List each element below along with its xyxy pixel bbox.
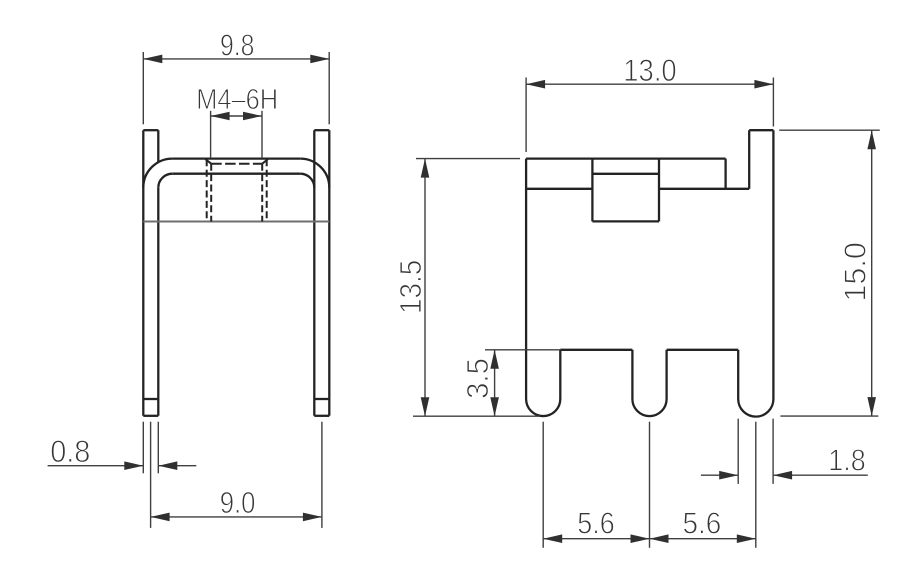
dim 5.6 dimension line (543, 538, 756, 540)
arrowhead 5.6 second right (737, 534, 756, 543)
dim 0.8 leader line right (158, 465, 196, 467)
right bend inner arc (300, 174, 314, 188)
svg-text:9.0: 9.0 (220, 485, 256, 520)
arrowhead 9.0 right (303, 513, 322, 522)
dim 9.8 dimension line (143, 58, 329, 60)
ledge line right of block to tab (659, 188, 749, 190)
prong 1 right edge (559, 350, 561, 399)
svg-text:9.8: 9.8 (220, 27, 255, 62)
thread bottom of chamfer line (211, 163, 262, 165)
arrowhead 0.8 right (outside, points left) (158, 461, 177, 470)
body top edge (526, 157, 726, 159)
svg-text:M4–6H: M4–6H (196, 84, 278, 116)
dim M4 extension line right (261, 111, 263, 159)
body right edge / prong 3 right edge (772, 130, 774, 399)
right leg inner edge (313, 130, 315, 416)
center block inner line (592, 173, 659, 175)
prong 2 left edge (631, 350, 633, 399)
dim 3.5 extension line top (485, 349, 560, 351)
slot 1 top edge (560, 349, 632, 351)
arrowhead 15.0 bottom (867, 397, 876, 416)
prong 3 rounded tip (738, 399, 773, 417)
cross line (block bottom edge seen from side) (143, 221, 329, 223)
arrowhead 1.8 left (outside, points right) (719, 471, 738, 480)
svg-text:0.8: 0.8 (50, 433, 90, 469)
body left edge / prong 1 left edge (525, 159, 527, 399)
dim 13.5 / 3.5 extension line bottom (413, 415, 540, 417)
left bend outer arc (143, 159, 172, 188)
dim 0.8 extension line left (142, 422, 144, 474)
right bend outer arc (300, 159, 329, 188)
svg-text:3.5: 3.5 (460, 358, 495, 399)
arrowhead M4 left (211, 112, 230, 121)
dim M4 dimension line (211, 115, 262, 117)
arrowhead 13.0 right (754, 80, 773, 89)
dim 9.0 extension line right (leg centerline) (321, 422, 323, 528)
dim 1.8 leader line right (773, 474, 868, 476)
arrowhead 13.0 left (526, 80, 545, 89)
step vertical at notch (724, 159, 726, 189)
arrowhead 13.5 top (421, 159, 430, 178)
prong 3 left edge (737, 350, 739, 399)
dim 13.0 extension line right (772, 78, 774, 127)
chamfer diagonal left (205, 159, 211, 164)
dim 13.0 extension line left (525, 78, 527, 153)
prong 2 right edge (665, 350, 667, 399)
center block bottom edge (592, 220, 659, 222)
arrowhead 3.5 bottom (490, 397, 499, 416)
dim 3.5 dimension line (494, 350, 496, 416)
dim 13.5 dimension line (424, 159, 426, 417)
thread minor diameter right (261, 164, 263, 222)
left leg bottom (143, 415, 158, 417)
tab top edge (749, 129, 773, 131)
right foot tangent line (314, 398, 329, 400)
left leg tab right edge (157, 130, 159, 161)
arrowhead 5.6 second left (650, 534, 669, 543)
arrowhead 5.6 first left (543, 534, 562, 543)
dim 9.8 extension line right (328, 52, 330, 124)
thread major diameter right (266, 159, 268, 221)
svg-text:13.0: 13.0 (623, 52, 676, 88)
svg-text:13.5: 13.5 (393, 260, 428, 314)
dim 9.8 extension line left (142, 52, 144, 124)
dim 9.0 extension line left (leg centerline) (150, 422, 152, 528)
top bar inner line (172, 173, 300, 175)
arrowhead 5.6 first right (631, 534, 650, 543)
right leg tab top (314, 129, 329, 131)
arrowhead 0.8 left (outside, points right) (124, 461, 143, 470)
dim 1.8 extension line left (737, 419, 739, 484)
dim 15.0 dimension line (871, 130, 873, 416)
arrowhead 9.0 left (151, 513, 170, 522)
arrowhead 3.5 top (490, 350, 499, 369)
left leg outer edge (142, 130, 144, 416)
left leg tab top (143, 129, 158, 131)
center block right edge (658, 159, 660, 222)
slot 2 top edge (667, 349, 739, 351)
svg-text:15.0: 15.0 (838, 242, 873, 301)
svg-text:5.6: 5.6 (577, 505, 614, 540)
top bar outer line (172, 157, 300, 159)
dim 0.8 extension line right (157, 422, 159, 474)
arrowhead 13.5 bottom (421, 397, 430, 416)
right leg outer edge (328, 130, 330, 416)
arrowhead 9.8 right (310, 55, 329, 64)
thread minor diameter left (210, 164, 212, 222)
svg-text:1.8: 1.8 (828, 443, 865, 478)
arrowhead 15.0 top (867, 130, 876, 149)
left bend inner arc (158, 174, 172, 188)
arrowhead 1.8 right (outside, points left) (773, 471, 792, 480)
arrowhead M4 right (243, 112, 262, 121)
threaded hole M4 (hidden/dashed lines) (207, 159, 267, 221)
center block left edge (591, 159, 593, 222)
dim 1.8 extension line right (772, 419, 774, 484)
left leg inner edge (157, 188, 159, 416)
dim 5.6 extension line right (prong 3 centerline) (755, 422, 757, 548)
dim 13.0 dimension line (526, 83, 773, 85)
dim 0.8 leader line left (48, 465, 144, 467)
thread major diameter left (206, 159, 208, 221)
dim M4 extension line left (210, 111, 212, 159)
dim 15.0 extension line top (779, 129, 880, 131)
dim 13.5 extension line top (416, 158, 520, 160)
dim 9.0 dimension line (151, 516, 322, 518)
dim 5.6 extension line left (prong 1 centerline) (542, 422, 544, 548)
left foot tangent line (143, 398, 158, 400)
ledge line left of block (526, 188, 592, 190)
dim 1.8 leader line left (701, 474, 738, 476)
chamfer diagonal right (262, 159, 268, 164)
dim 5.6 extension line middle (prong 2 centerline) (649, 422, 651, 548)
prong 2 rounded tip (632, 399, 666, 416)
svg-text:5.6: 5.6 (683, 505, 722, 540)
arrowhead 9.8 left (143, 55, 162, 64)
prong 1 rounded tip (526, 399, 560, 416)
tab left edge (748, 130, 750, 189)
right leg bottom (314, 415, 329, 417)
dim 15.0 extension line bottom (780, 415, 878, 417)
